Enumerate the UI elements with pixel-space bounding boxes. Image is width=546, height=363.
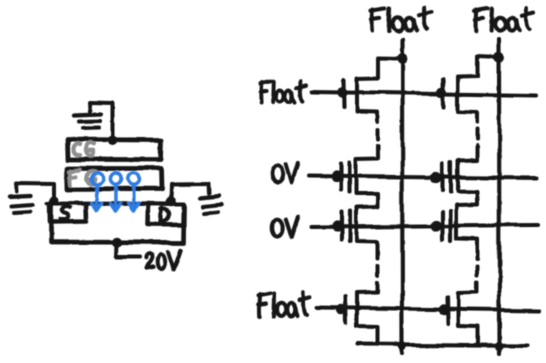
- wire D terminal to right ground: [171, 184, 210, 202]
- wire string2 dashed continuation (omitted cells): [475, 266, 479, 276]
- wire word line WL0 (Float): [312, 92, 536, 96]
- substrate surface line: [47, 201, 184, 206]
- ground symbol (right, drain): [200, 197, 222, 215]
- substrate tub outline: [51, 205, 185, 243]
- wire word line WL3 (Float): [317, 308, 540, 311]
- wire bit line BL2: [497, 39, 502, 353]
- electron tunneling arrow 2 (blue): [110, 173, 121, 211]
- electron tunneling arrow 3 (blue): [128, 173, 139, 210]
- node M6 gate dot on WL1: [430, 172, 441, 183]
- label S: [60, 207, 70, 220]
- node M3 gate dot on WL2: [331, 220, 342, 231]
- transistor select M1 gate bar (WL0/BL1): [341, 80, 346, 107]
- node substrate contact dot: [112, 237, 122, 247]
- label CG: [73, 143, 80, 155]
- wire common source line: [358, 344, 527, 346]
- electron tunneling arrow 1 (blue): [92, 173, 103, 211]
- node D contact dot: [166, 197, 176, 207]
- node M8 gate dot on WL3: [438, 304, 448, 314]
- wire word line WL1 (0V): [309, 176, 537, 179]
- wire NAND string2 drain path through select transistor channel: [458, 57, 499, 123]
- label Float (word line WL3): [257, 294, 262, 316]
- wire string2 channel through cells M6 and M7: [457, 146, 478, 259]
- wire NAND string1 drain path through select transistor channel: [357, 58, 402, 123]
- node BL1 / source line junction dot: [398, 342, 406, 350]
- node BL2 drain junction dot: [494, 52, 505, 63]
- wire string2 dashed continuation (omitted cells): [475, 130, 479, 140]
- label Float (bit line BL1, top): [370, 10, 375, 31]
- transistor select M4 gate bar (WL3/BL1): [343, 297, 348, 324]
- ground symbol (top, control gate): [74, 114, 101, 128]
- label D: [159, 208, 163, 222]
- floating-gate cell M2 gate bars (WL1/BL1): [342, 163, 351, 193]
- node M1 gate dot on WL0: [337, 87, 347, 97]
- control gate CG box: [67, 140, 162, 160]
- wire string1 channel through cells M2 and M3: [357, 146, 378, 259]
- node BL2 / source line junction dot: [495, 342, 503, 350]
- wire word line WL2 (0V): [311, 225, 538, 227]
- wire S terminal to left ground: [17, 183, 54, 201]
- wire bit line BL1: [400, 39, 405, 353]
- node M5 gate dot on WL0: [437, 88, 447, 98]
- node S contact dot: [49, 196, 58, 205]
- floating-gate cell M7 gate bars (WL2/BL2): [443, 211, 451, 241]
- label 0V (word line WL2): [272, 219, 283, 237]
- floating-gate cell M3 gate bars (WL2/BL1): [342, 212, 351, 242]
- wire string1 dashed continuation (omitted cells): [376, 130, 380, 140]
- wire substrate to 20V source: [116, 243, 140, 258]
- label 20V (substrate bias): [146, 254, 153, 269]
- node M7 gate dot on WL2: [430, 220, 441, 231]
- transistor select M5 gate bar (WL0/BL2): [441, 80, 446, 108]
- node CG contact dot: [108, 136, 118, 146]
- transistor select M8 gate bar (WL3/BL2): [445, 297, 450, 324]
- source terminal S box: [49, 204, 87, 223]
- drain terminal D box: [148, 204, 184, 225]
- floating-gate cell M6 gate bars (WL1/BL2): [443, 163, 451, 192]
- node BL1 drain junction dot: [397, 53, 408, 64]
- wire CG terminal to top ground: [90, 102, 113, 140]
- floating gate FG box: [67, 169, 162, 190]
- wire string1 source path through select transistor M4: [357, 283, 378, 344]
- node M2 gate dot on WL1: [331, 170, 342, 181]
- wire string2 source path through select transistor M8: [458, 283, 479, 344]
- node M4 gate dot on WL3: [336, 304, 346, 314]
- label FG: [68, 171, 73, 185]
- label Float (word line WL0): [259, 83, 264, 102]
- label Float (bit line BL2, top): [474, 10, 479, 31]
- ground symbol (left, source): [10, 196, 33, 213]
- wire string1 dashed continuation (omitted cells): [376, 266, 380, 276]
- label 0V (word line WL1): [272, 165, 283, 183]
